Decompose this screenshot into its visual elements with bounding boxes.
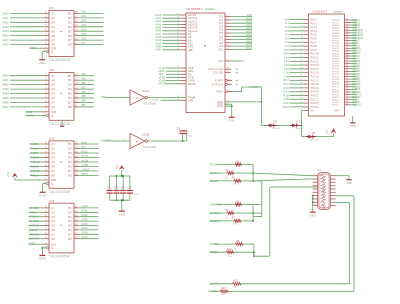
svg-text:IC4: IC4 [49,199,54,203]
svg-text:13: 13 [75,227,78,230]
svg-text:PIO5: PIO5 [311,33,318,37]
svg-text:B6: B6 [68,96,72,100]
svg-text:RST: RST [283,78,289,82]
svg-text:14: 14 [75,160,78,163]
svg-text:VU: VU [311,109,315,113]
svg-text:18: 18 [75,11,78,14]
svg-text:/AD7: /AD7 [2,43,9,47]
svg-text:X1: X1 [318,169,322,172]
svg-text:/AD2: /AD2 [2,20,9,24]
svg-text:B3: B3 [68,215,72,219]
svg-text:▶: ▶ [61,161,63,164]
svg-text:CS0: CS0 [283,86,289,90]
svg-text:B5: B5 [68,92,72,96]
svg-text:R9: R9 [236,241,240,243]
svg-text:C1B: C1B [283,71,289,75]
svg-text:100: 100 [221,294,226,296]
svg-text:B7: B7 [68,232,72,236]
svg-text:GND: GND [118,212,126,216]
svg-text:A4: A4 [51,25,55,29]
svg-text:10: 10 [313,204,315,206]
svg-text:74LS08D: 74LS08D [142,145,156,149]
svg-text:B2: B2 [68,78,72,82]
svg-text:A2: A2 [51,210,55,214]
svg-text:1N4004: 1N4004 [310,140,319,142]
svg-text:18: 18 [75,73,78,76]
svg-text:/AB0: /AB0 [2,74,9,78]
svg-text:6: 6 [313,191,314,193]
svg-text:+5V: +5V [6,172,10,178]
svg-text:/A2BN: /A2BN [26,114,35,118]
svg-text:PIO4: PIO4 [311,29,318,33]
svg-text:74LS245DW: 74LS245DW [49,122,71,126]
svg-text:IC2: IC2 [49,68,54,72]
svg-text:17: 17 [75,78,78,81]
svg-text:D2: D2 [274,122,278,124]
svg-text:17: 17 [75,15,78,18]
svg-text:B4: B4 [68,219,72,223]
svg-text:C2B: C2B [283,74,289,78]
svg-text:/R3NB: /R3NB [159,82,168,86]
svg-text:5: 5 [313,188,314,190]
svg-text:IEB: IEB [188,48,193,52]
svg-text:C2: C2 [114,186,118,190]
svg-text:A7: A7 [51,101,55,105]
svg-text:13: 13 [75,164,78,167]
svg-text:PIO10: PIO10 [311,52,320,56]
svg-text:A7: A7 [51,232,55,236]
svg-text:/SEG0: /SEG0 [209,179,218,183]
svg-text:/AN110: /AN110 [29,219,39,223]
svg-text:74LS08D: 74LS08D [142,102,156,106]
svg-text:/A3B10: /A3B10 [29,215,39,219]
svg-text:▶: ▶ [61,224,63,227]
svg-text:A5: A5 [51,92,55,96]
svg-text:GND: GND [39,194,47,198]
svg-text:/AB4: /AB4 [2,92,9,96]
svg-text:A3: A3 [51,215,55,219]
svg-text:GND: GND [217,104,223,108]
svg-text:D7: D7 [285,44,289,48]
svg-text:PIO7: PIO7 [311,40,318,44]
svg-text:/ABC: /ABC [29,46,36,50]
svg-text:PIO15: PIO15 [311,71,320,75]
svg-text:D4: D4 [285,33,289,37]
svg-text:CLK: CLK [283,82,289,86]
svg-text:/AD0: /AD0 [2,11,9,15]
svg-text:PIO6: PIO6 [311,37,318,41]
svg-text:PIO1: PIO1 [311,18,318,22]
svg-text:74LS245DW: 74LS245DW [49,255,71,259]
svg-text:14: 14 [75,91,78,94]
svg-text:C3: C3 [121,186,125,190]
svg-text:PIO11: PIO11 [311,56,319,60]
svg-text:/A3B0: /A3B0 [29,210,38,214]
svg-text:100: 100 [234,287,239,289]
svg-text:D3: D3 [312,133,316,135]
svg-text:PIO19: PIO19 [311,86,320,90]
svg-text:A5: A5 [51,29,55,33]
svg-text:A1: A1 [51,74,55,78]
svg-text:B1: B1 [68,206,72,210]
svg-text:A2B: A2B [283,97,289,101]
svg-text:/ABA00: /ABA00 [30,169,41,173]
svg-text:B4: B4 [68,25,72,29]
svg-text:/AB5: /AB5 [2,96,9,100]
svg-text:CS1: CS1 [283,90,289,94]
svg-text:▶: ▶ [204,45,206,48]
svg-text:14: 14 [75,223,78,226]
svg-text:/A0B11: /A0B11 [30,156,40,160]
svg-text:/PB00: /PB00 [30,174,39,178]
svg-text:B3: B3 [68,20,72,24]
svg-text:/B0: /B0 [101,95,106,99]
svg-text:G: G [51,182,53,186]
svg-text:R14: R14 [221,288,226,290]
svg-text:B1: B1 [68,142,72,146]
svg-text:/AB7: /AB7 [2,105,9,109]
svg-text:GND: GND [346,182,352,185]
svg-text:#+: #+ [236,79,239,82]
svg-text:/AB2: /AB2 [2,83,9,87]
svg-text:IOW: IOW [283,52,289,56]
svg-text:1: 1 [313,174,314,176]
svg-text:GREEN0: GREEN0 [210,202,222,206]
svg-text:470: 470 [233,184,238,186]
svg-text:1N4004: 1N4004 [272,128,281,130]
svg-text:/A33: /A33 [81,217,88,221]
svg-text:18: 18 [75,205,78,208]
svg-text:B6: B6 [68,165,72,169]
svg-text:A1B: A1B [283,93,289,97]
svg-text:A3: A3 [51,83,55,87]
svg-text:B5: B5 [68,224,72,228]
svg-text:A5: A5 [51,224,55,228]
svg-text:GREEN2: GREEN2 [209,219,221,223]
svg-text:+5V: +5V [325,129,329,135]
svg-text:A17: A17 [284,59,290,63]
svg-text:13: 13 [75,33,78,36]
svg-text:PIO15: PIO15 [332,105,340,107]
svg-text:16: 16 [75,214,78,217]
svg-text:D5: D5 [285,36,289,40]
svg-text:R10: R10 [227,249,232,251]
svg-text:B2: B2 [68,147,72,151]
svg-text:▶: ▶ [61,92,63,95]
svg-text:G: G [51,246,53,250]
svg-text:GND: GND [310,215,316,218]
svg-text:4: 4 [313,184,314,186]
svg-text:PIO14: PIO14 [311,67,320,71]
svg-text:BA0: BA0 [283,105,289,109]
svg-text:+5V: +5V [115,165,119,171]
svg-text:PIO20: PIO20 [311,90,320,94]
svg-text:PIO13: PIO13 [311,63,320,67]
svg-text:header: header [205,7,216,11]
svg-text:/B10: /B10 [81,172,88,176]
svg-text:A4: A4 [51,87,55,91]
svg-text:/B5: /B5 [81,94,86,98]
svg-text:PIO18: PIO18 [311,82,320,86]
svg-text:/A3BC0: /A3BC0 [29,224,40,228]
svg-text:/A3N0: /A3N0 [29,228,38,232]
svg-text:VD10: VD10 [245,46,252,50]
svg-text:A2: A2 [51,147,55,151]
svg-text:D2: D2 [285,25,289,29]
svg-text:A6: A6 [51,228,55,232]
svg-text:/AN300: /AN300 [29,206,40,210]
svg-text:A1: A1 [51,12,55,16]
svg-text:A8: A8 [51,237,55,241]
svg-text:GND: GND [350,125,356,128]
svg-text:R7: R7 [232,218,236,220]
svg-text:16: 16 [75,82,78,85]
svg-text:/AB3: /AB3 [28,241,35,245]
svg-text:IC5A: IC5A [142,89,149,93]
svg-text:IC3: IC3 [49,137,54,141]
svg-text:PIO9: PIO9 [311,48,318,52]
svg-text:B6: B6 [68,228,72,232]
svg-text:A8: A8 [51,174,55,178]
svg-text:2: 2 [313,178,314,180]
svg-text:A3: A3 [51,20,55,24]
svg-text:12: 12 [75,169,78,172]
svg-text:▶: ▶ [137,140,139,143]
svg-text:/D1: /D1 [81,14,86,18]
svg-text:#+: #+ [236,83,239,86]
svg-text:/AD1: /AD1 [2,16,9,20]
svg-text:13: 13 [75,96,78,99]
svg-text:RESET: RESET [101,138,111,142]
svg-text:LPB: LPB [188,98,193,102]
svg-text:/B4: /B4 [81,90,86,94]
svg-text:%: % [235,249,237,251]
svg-text:/LPB: /LPB [81,163,88,167]
svg-text:/D3: /D3 [81,23,86,27]
svg-text:/A1B: /A1B [81,158,88,162]
svg-text:▶: ▶ [137,97,139,100]
svg-text:3: 3 [313,181,314,183]
svg-text:B7: B7 [68,38,72,42]
svg-text:PIO16: PIO16 [311,75,320,79]
svg-text:/A0B0: /A0B0 [30,142,39,146]
svg-text:/D2: /D2 [81,19,86,23]
svg-text:A16: A16 [284,55,290,59]
svg-text:/AB6: /AB6 [2,100,9,104]
svg-text:D36: D36 [81,140,87,144]
svg-text:0.1: 0.1 [134,193,138,196]
svg-text:/ABA00: /ABA00 [29,232,40,236]
svg-text:D3: D3 [285,29,289,33]
svg-text:/A11: /A11 [81,149,87,153]
svg-text:/SP20: /SP20 [81,167,90,171]
svg-text:socket: socket [333,9,343,13]
svg-text:17: 17 [75,146,78,149]
svg-text:A2: A2 [51,78,55,82]
svg-text:IOR: IOR [284,48,289,52]
svg-text:LPWRT: LPWRT [249,85,259,89]
svg-text:R3: R3 [232,178,236,180]
svg-text:12: 12 [75,100,78,103]
svg-text:/AB1: /AB1 [2,78,9,82]
svg-text:/AB3: /AB3 [2,87,9,91]
svg-text:/A0B2: /A0B2 [30,151,39,155]
svg-text:D4: D4 [297,122,301,124]
svg-text:17: 17 [75,210,78,213]
svg-text:/B0: /B0 [81,72,86,76]
svg-text:B3: B3 [68,83,72,87]
svg-text:C1: C1 [107,186,111,190]
svg-text:B1: B1 [68,74,72,78]
svg-text:15: 15 [75,24,78,27]
svg-text:B8: B8 [68,174,72,178]
svg-text:16: 16 [75,20,78,23]
svg-text:A19: A19 [284,67,290,71]
svg-text:B5: B5 [68,29,72,33]
svg-text:GND: GND [39,61,47,65]
svg-text:B4: B4 [68,156,72,160]
svg-text:12: 12 [75,232,78,235]
svg-text:U0-IN1: U0-IN1 [208,289,218,293]
svg-text:/A37: /A37 [81,235,88,239]
svg-text:IC1: IC1 [49,6,54,10]
svg-text:/AD3: /AD3 [2,25,9,29]
svg-text:/D5: /D5 [81,32,86,36]
svg-text:PIO2: PIO2 [311,21,318,25]
svg-text:A5: A5 [51,160,55,164]
svg-text:R2: R2 [226,170,230,172]
svg-text:U0-IN0: U0-IN0 [209,282,219,286]
svg-text:/B7: /B7 [81,103,86,107]
svg-text:/D7: /D7 [81,41,86,45]
svg-text:PIO23: PIO23 [311,101,320,105]
svg-text:A3C: A3C [283,101,289,105]
svg-text:▶: ▶ [61,30,63,33]
svg-text:14: 14 [75,29,78,32]
svg-text:/B3: /B3 [81,85,86,89]
svg-text:D0: D0 [285,17,289,21]
svg-text:18: 18 [75,142,78,145]
svg-text:DOTCLK: DOTCLK [212,82,224,86]
svg-text:R6: R6 [226,210,230,212]
svg-text:SKLB1: SKLB1 [209,250,218,254]
svg-text:/A1: /A1 [81,145,86,149]
svg-text:/SEG-1: /SEG-1 [209,171,219,175]
svg-text:EURO: EURO [215,78,223,82]
svg-text:/A0BC0: /A0BC0 [30,160,41,164]
svg-text:1N4004: 1N4004 [295,128,304,130]
svg-text:PIO3: PIO3 [311,25,318,29]
svg-text:E/B: E/B [218,59,223,63]
svg-text:A6: A6 [51,96,55,100]
svg-text:A18: A18 [284,63,290,67]
svg-text:/AD5: /AD5 [2,34,9,38]
svg-text:/A10: /A10 [81,154,88,158]
svg-text:/IEB: /IEB [155,48,161,52]
svg-text:/D6: /D6 [81,36,86,40]
svg-text:15: 15 [75,155,78,158]
svg-text:15: 15 [75,87,78,90]
svg-text:PIO8: PIO8 [311,44,318,48]
svg-text:74LS245DW: 74LS245DW [49,190,71,194]
svg-text:C8: C8 [177,128,181,130]
svg-text:470: 470 [233,224,238,226]
svg-text:A6: A6 [51,165,55,169]
svg-text:PIO21: PIO21 [311,94,320,98]
svg-text:16: 16 [75,151,78,154]
svg-text:B3: B3 [68,151,72,155]
svg-text:15: 15 [75,219,78,222]
svg-text:74LS245DW: 74LS245DW [49,58,71,62]
svg-text:GND20: GND20 [352,104,361,107]
svg-text:/A36: /A36 [81,231,88,235]
svg-text:/LP9: /LP9 [153,98,159,102]
svg-text:B4: B4 [68,87,72,91]
svg-text:/D0: /D0 [81,10,86,14]
svg-text:CS 9058E7: CS 9058E7 [186,7,203,11]
svg-text:COLOR: COLOR [213,71,223,75]
svg-text:G: G [51,50,53,54]
svg-text:PIO24: PIO24 [311,105,320,109]
svg-text:A6: A6 [51,34,55,38]
svg-text:G: G [51,114,53,118]
svg-text:B8: B8 [68,237,72,241]
svg-text:CMOD47: CMOD47 [313,9,328,13]
svg-text:B7: B7 [68,101,72,105]
svg-text:B1: B1 [68,12,72,16]
svg-text:R1: R1 [236,161,240,163]
svg-text:/B2: /B2 [81,81,86,85]
svg-text:PIO12: PIO12 [311,59,320,63]
svg-text:C4: C4 [128,186,132,190]
svg-text:DC36: DC36 [210,162,218,166]
svg-text:R13: R13 [234,280,239,282]
svg-text:D6: D6 [285,40,289,44]
svg-text:470: 470 [228,256,233,258]
svg-text:/AD4: /AD4 [2,29,9,33]
svg-text:GND: GND [39,257,47,261]
svg-text:PIO22: PIO22 [311,97,320,101]
svg-text:B6: B6 [68,34,72,38]
svg-text:/A34: /A34 [81,222,88,226]
svg-text:PHI0: PHI0 [217,90,224,94]
svg-text:A3: A3 [51,151,55,155]
svg-text:/AD6: /AD6 [2,38,9,42]
svg-text:/A0N3: /A0N3 [30,165,39,169]
svg-text:/B1: /B1 [81,77,86,81]
svg-text:B8: B8 [68,105,72,109]
svg-text:B8: B8 [68,43,72,47]
svg-text:#?: #? [242,60,245,63]
svg-text:PIO17: PIO17 [311,78,320,82]
svg-text:/A35: /A35 [81,226,88,230]
svg-text:SKLB0: SKLB0 [210,242,219,246]
svg-text:A7: A7 [51,169,55,173]
svg-text:A7: A7 [51,38,55,42]
svg-text:R3NB: R3NB [188,82,196,86]
svg-text:/A0B1: /A0B1 [30,147,39,151]
svg-text:/B6: /B6 [81,99,86,103]
svg-text:12: 12 [75,38,78,41]
svg-text:SHB: SHB [334,111,339,113]
svg-text:A4: A4 [51,156,55,160]
svg-text:B2: B2 [68,210,72,214]
svg-text:10u: 10u [188,136,193,138]
svg-text:/A30: /A30 [81,204,88,208]
svg-text:B5: B5 [68,160,72,164]
svg-text:R5: R5 [236,201,240,203]
svg-text:/A31: /A31 [81,209,88,213]
